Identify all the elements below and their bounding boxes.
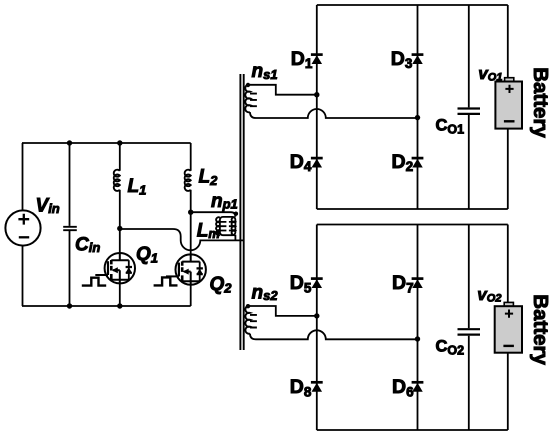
wire top rail left circuit (22, 142, 191, 144)
svg-text:Vin: Vin (36, 195, 60, 216)
diode D4 (311, 158, 323, 167)
wire CO2 branch lower (468, 336, 470, 430)
svg-text:Battery: Battery (529, 294, 550, 365)
transistor Q1 circle (105, 253, 135, 283)
battery2 plus (505, 310, 513, 318)
node bottom rail Q1 (117, 303, 122, 308)
wire bridge2 bottom rail (317, 429, 508, 431)
wire CO1 branch upper (468, 5, 470, 107)
battery1 minus (504, 120, 515, 122)
winding ns1 polarity dot (246, 83, 250, 87)
diode D2 (412, 158, 424, 167)
wire Q2 to bottom rail (190, 285, 192, 306)
diode D3 (412, 55, 424, 64)
wire bridge2 top rail (317, 224, 508, 226)
diode D8 (311, 382, 323, 391)
wire bridge1 bottom rail (317, 208, 508, 210)
svg-text:D7: D7 (392, 272, 414, 295)
Vin minus sign (19, 236, 29, 238)
wire bottom rail left circuit (22, 305, 191, 307)
node L1-Q1 junction (117, 226, 122, 231)
winding np1 coil (232, 217, 236, 235)
wire bridge1 mid leg (417, 5, 419, 209)
Q1 gate pulse (82, 278, 106, 286)
node bridge1 left mid (314, 92, 319, 97)
svg-text:D4: D4 (290, 151, 312, 174)
wire primary bottom with hop to L1 node (120, 229, 244, 250)
diode D5 (311, 279, 323, 288)
battery1 nub (505, 78, 514, 82)
wire L2 to Q2 (190, 190, 192, 255)
svg-text:D1: D1 (291, 48, 313, 71)
svg-text:L2: L2 (199, 167, 219, 189)
svg-text:Q1: Q1 (136, 244, 158, 266)
wire bridge1 left leg (316, 5, 318, 209)
svg-text:Q2: Q2 (210, 274, 233, 296)
svg-text:D8: D8 (290, 376, 312, 399)
svg-text:CO1: CO1 (436, 116, 465, 136)
winding ns2 turn bars (250, 315, 257, 328)
diode D1 (311, 55, 323, 64)
wire bridge2 right leg lower (507, 353, 509, 430)
capacitor CO1 plates (458, 109, 481, 114)
capacitor Cin plates (63, 227, 77, 230)
node bridge1 right mid (415, 115, 420, 120)
node primary polarity dot (234, 212, 238, 216)
battery1 body (495, 82, 522, 129)
winding ns2 polarity dot (246, 304, 250, 308)
svg-text:np1: np1 (211, 191, 238, 212)
wire CO1 branch lower (468, 115, 470, 209)
wire L1 branch upper (119, 143, 121, 171)
transformer core lines (240, 74, 243, 350)
wire bridge1 right leg lower (507, 129, 509, 209)
source Vin circle (5, 210, 40, 245)
winding ns1 coil (245, 85, 250, 113)
diode D7 (412, 279, 424, 288)
node top rail L1 (117, 140, 122, 145)
wire ns1 bottom with hop to bridge1 right mid (250, 109, 418, 118)
wire CO2 branch upper (468, 225, 470, 329)
wire Q1 to bottom rail (119, 283, 121, 306)
svg-text:vO2: vO2 (477, 285, 501, 305)
wire Cin branch upper (69, 143, 71, 226)
inductor L2 coil (185, 170, 191, 191)
battery2 body (495, 306, 522, 353)
capacitor CO2 plates (458, 329, 481, 334)
node bridge2 left mid (314, 313, 319, 318)
svg-text:Battery: Battery (529, 67, 550, 138)
node top rail Cin (67, 140, 72, 145)
wire Cin branch lower (69, 231, 71, 306)
node bridge2 right mid (415, 336, 420, 341)
wire ns2 top to bridge2 left mid (250, 306, 317, 316)
node L2-primary junction (188, 210, 193, 215)
inductor L1 coil (114, 170, 120, 191)
wire bridge2 right leg upper (507, 225, 509, 303)
wire bridge1 top rail (317, 4, 508, 6)
svg-text:L1: L1 (128, 176, 147, 198)
inductor Lm coil (216, 217, 220, 235)
transistor Q2 internals (179, 254, 203, 284)
Q2 gate lead (166, 275, 179, 277)
wire left vertical below Vin (22, 246, 24, 306)
winding ns1 turn bars (250, 94, 257, 107)
diode D6 (412, 382, 424, 391)
wire L2 branch upper (190, 143, 192, 171)
svg-text:vO1: vO1 (478, 64, 502, 84)
wire L1 to Q1 (119, 190, 121, 253)
transistor Q1 internals (108, 253, 132, 283)
inductor Lm parallel loop (220, 217, 236, 235)
svg-text:ns1: ns1 (252, 61, 278, 82)
wire ns1 top to bridge1 left mid (250, 85, 317, 95)
winding ns2 coil (245, 306, 250, 334)
svg-text:CO2: CO2 (436, 337, 465, 357)
battery2 minus (503, 345, 514, 347)
wire primary top from L2 node (191, 212, 236, 216)
svg-text:ns2: ns2 (252, 282, 279, 303)
svg-text:D6: D6 (392, 376, 414, 399)
node bottom rail Cin (67, 303, 72, 308)
wire bridge1 right leg upper (507, 5, 509, 78)
battery1 plus (505, 85, 513, 93)
wire ns2 bottom with hop to bridge2 right mid (250, 330, 418, 339)
wire bridge2 left leg (316, 225, 318, 431)
wire left vertical above Vin (22, 143, 24, 210)
wire bridge2 mid leg (417, 225, 419, 431)
battery2 nub (504, 302, 513, 306)
svg-text:Cin: Cin (75, 235, 100, 256)
svg-text:D2: D2 (392, 151, 414, 174)
Vin plus sign (18, 214, 29, 225)
Q1 gate lead (95, 274, 108, 276)
svg-text:D3: D3 (391, 48, 413, 71)
svg-text:D5: D5 (290, 272, 312, 295)
transistor Q2 circle (176, 254, 206, 284)
Q2 gate pulse (154, 277, 178, 285)
